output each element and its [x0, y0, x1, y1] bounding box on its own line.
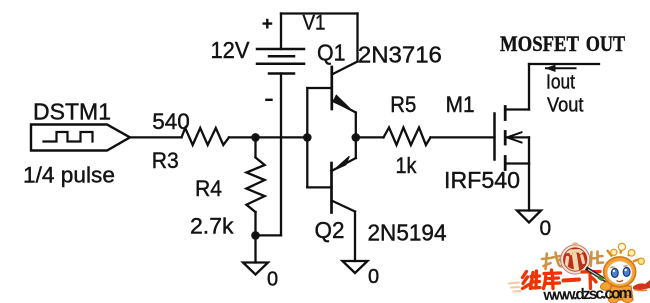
battery V1	[256, 14, 304, 236]
watermark magnifier	[561, 242, 590, 274]
svg-text:540: 540	[152, 109, 190, 134]
svg-text:0: 0	[368, 266, 379, 288]
battery minus sign	[266, 99, 271, 101]
wire R3 to base node	[229, 136, 307, 138]
wire DSTM1 to R3	[130, 136, 182, 138]
svg-text:0: 0	[267, 269, 278, 291]
svg-text:Q1: Q1	[317, 40, 346, 66]
svg-text:Iout: Iout	[546, 72, 575, 94]
node dot base junction	[303, 133, 312, 142]
watermark mascot	[600, 243, 644, 303]
svg-text:12V: 12V	[211, 37, 251, 63]
watermark glyph 库	[544, 270, 561, 289]
transistor Q1	[307, 62, 357, 113]
svg-text:V1: V1	[303, 12, 326, 35]
watermark glyph 下	[582, 272, 600, 289]
node dot R4 junction	[251, 133, 260, 142]
node dot R4 bottom	[251, 231, 260, 240]
node dot emitters	[352, 133, 361, 142]
transistor Q2	[307, 156, 356, 261]
watermark glyph 一	[564, 280, 580, 281]
wire V+ rail to Q1 collector	[281, 14, 358, 62]
pulse source DSTM1	[31, 125, 130, 151]
watermark dzsc logo	[509, 242, 650, 303]
svg-text:2N5194: 2N5194	[368, 220, 447, 246]
Iout arrow	[545, 65, 576, 72]
ground under R4	[243, 263, 268, 275]
resistor R3	[182, 128, 230, 145]
watermark magnifier handle	[586, 268, 612, 285]
svg-text:R3: R3	[152, 148, 179, 173]
svg-text:1/4 pulse: 1/4 pulse	[23, 163, 115, 188]
svg-text:Q2: Q2	[315, 217, 345, 243]
MOSFET M1	[495, 64, 530, 211]
svg-text:2N3716: 2N3716	[358, 42, 442, 68]
watermark glyph 找	[542, 253, 562, 270]
wire emitters junction	[355, 113, 357, 159]
wire emitter node to R5	[356, 136, 384, 138]
svg-text:1k: 1k	[396, 153, 418, 178]
resistor R5	[384, 128, 431, 146]
watermark glyph 维	[523, 271, 541, 289]
battery plus sign	[264, 20, 271, 27]
wire MOSFET drain output	[529, 63, 599, 65]
svg-text:www.dzsc.com: www.dzsc.com	[542, 285, 632, 303]
svg-text:R4: R4	[195, 176, 222, 201]
svg-text:IRF540: IRF540	[444, 167, 520, 193]
resistor R4	[246, 137, 264, 235]
svg-text:2.7k: 2.7k	[190, 214, 235, 239]
ground under Q2	[343, 261, 368, 273]
watermark ribbon	[633, 280, 650, 290]
wire R4 bottom to ground	[254, 235, 256, 262]
ground under M1	[517, 211, 541, 223]
svg-text:M1: M1	[446, 92, 475, 117]
svg-text:0: 0	[540, 217, 552, 240]
watermark speed lines	[509, 283, 521, 292]
wire base node to transistor bases	[306, 88, 308, 187]
wire R5 to gate	[431, 136, 495, 138]
svg-text:MOSFET: MOSFET	[500, 31, 579, 56]
watermark glyph 片	[591, 252, 603, 267]
svg-text:DSTM1: DSTM1	[33, 99, 111, 125]
svg-text:R5: R5	[390, 92, 416, 117]
svg-text:Vout: Vout	[547, 95, 584, 117]
svg-text:OUT: OUT	[586, 31, 626, 56]
